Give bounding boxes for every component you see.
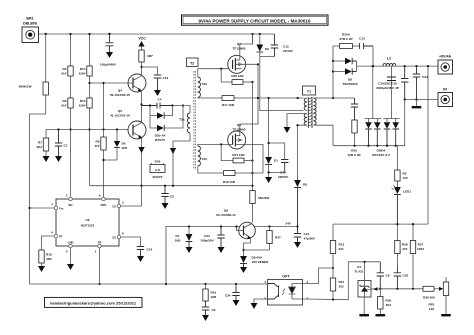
svg-text:100μf/400V: 100μf/400V — [100, 63, 117, 67]
svg-text:102: 102 — [403, 176, 408, 180]
wire T2C top to Q1 gate — [198, 144, 233, 146]
wire mid column R30 to bus — [252, 34, 254, 191]
svg-text:D8: D8 — [303, 183, 307, 187]
svg-text:2K2: 2K2 — [386, 303, 392, 307]
wire secondary bottom — [315, 125, 333, 146]
svg-text:8: 8 — [122, 232, 124, 236]
diode D5a — [365, 65, 381, 147]
wire pin1 line from sense — [412, 100, 414, 102]
svg-text:C34: C34 — [225, 294, 231, 298]
wire CS to bus — [121, 186, 142, 206]
wire bus tap to 680K — [45, 33, 47, 35]
resistor R12 102 — [330, 278, 344, 300]
part D29 BAV70 floating — [150, 160, 165, 180]
resistor R27 1002 — [410, 224, 424, 289]
svg-text:4: 4 — [51, 231, 53, 235]
svg-text:C19: C19 — [163, 76, 169, 80]
svg-text:C24: C24 — [147, 248, 153, 252]
svg-text:1204: 1204 — [79, 104, 86, 108]
wire opto pin3 ground — [254, 299, 268, 303]
ground TL431 — [359, 314, 369, 316]
svg-text:VCC: VCC — [138, 37, 146, 41]
svg-text:3: 3 — [122, 201, 124, 205]
svg-text:AL-BCX53-16: AL-BCX53-16 — [110, 114, 130, 118]
svg-text:R16: R16 — [211, 291, 217, 295]
wire opto pin2 right — [304, 262, 380, 300]
resistor R21 1R2 — [232, 153, 253, 163]
ground D7 — [186, 247, 193, 253]
svg-text:GND: GND — [68, 241, 74, 245]
svg-text:BL-BC856-16: BL-BC856-16 — [216, 213, 236, 217]
svg-text:24V: 24V — [285, 222, 291, 226]
capacitor C23 — [200, 225, 224, 247]
email box — [45, 297, 143, 307]
svg-text:C34: C34 — [422, 75, 428, 79]
svg-text:R7: R7 — [38, 141, 42, 145]
wire 0V rail — [405, 99, 438, 101]
svg-text:C16/18/17/19: C16/18/17/19 — [378, 82, 397, 86]
svg-text:C13: C13 — [359, 37, 365, 41]
svg-text:C21: C21 — [304, 232, 310, 236]
svg-text:Q1: Q1 — [237, 123, 241, 127]
svg-text:5: 5 — [66, 250, 68, 254]
wire TL431 anode ground — [363, 298, 365, 314]
ground C2 — [55, 156, 62, 162]
pin 3 CS — [112, 201, 124, 209]
wire C4 row to T2a top — [173, 106, 191, 114]
ground C23 — [218, 247, 225, 253]
svg-text:R39: R39 — [386, 299, 392, 303]
wire 680K bottom to left rail — [30, 95, 46, 284]
wire Q8 emitter to D9 — [244, 238, 251, 256]
wire VCC node to C19 — [142, 67, 158, 75]
svg-text:7: 7 — [51, 203, 53, 207]
svg-text:R20A: R20A — [342, 33, 351, 37]
svg-text:1N5: 1N5 — [122, 146, 128, 150]
resistor R6 102 — [395, 146, 408, 187]
svg-text:R17 10R: R17 10R — [222, 103, 235, 107]
part U4 TL431 — [355, 261, 371, 298]
wire column B R14 R15 — [89, 34, 91, 186]
svg-text:C6: C6 — [212, 308, 216, 312]
wire gate to R30 row — [221, 69, 232, 82]
svg-text:+9V/4A: +9V/4A — [439, 55, 451, 59]
svg-text:BAV70: BAV70 — [155, 138, 165, 142]
svg-text:nandasirigunasekare@yahoo.com: nandasirigunasekare@yahoo.com 25/12/2021 — [50, 301, 137, 306]
resistor R20A 47R X 2P — [333, 33, 360, 49]
resistor R38 472 — [395, 224, 408, 266]
wire SS to C24 — [121, 237, 141, 247]
svg-text:221: 221 — [339, 247, 344, 251]
svg-text:SS: SS — [112, 236, 116, 240]
capacitor C12 — [271, 34, 294, 57]
resistor R17 10R — [222, 96, 235, 107]
pin 1 FB — [95, 241, 102, 254]
svg-text:R30 1R2: R30 1R2 — [231, 74, 243, 78]
capacitor C4 — [142, 98, 174, 109]
winding T2b — [198, 77, 207, 98]
transformer T1 core — [308, 97, 312, 128]
svg-text:R14: R14 — [80, 67, 86, 71]
inductor L2 — [383, 57, 396, 67]
svg-text:16V ZENER: 16V ZENER — [252, 260, 270, 264]
svg-text:Q8: Q8 — [224, 209, 228, 213]
diode D2b-A4 lower — [150, 104, 184, 142]
capacitor C16-C19 bank — [376, 77, 399, 90]
svg-text:NCP1252: NCP1252 — [81, 224, 95, 228]
svg-text:C5: C5 — [170, 195, 174, 199]
svg-text:R26: R26 — [351, 149, 357, 153]
svg-text:4R2: 4R2 — [46, 257, 52, 261]
resistor R14 1204 — [79, 66, 93, 76]
ground R18 — [38, 266, 45, 272]
ground C19 — [154, 90, 161, 96]
wire Fss to left rail — [30, 207, 55, 209]
svg-text:47R X 2P: 47R X 2P — [339, 37, 352, 41]
resistor R15 1204 — [79, 98, 93, 108]
wire rectifier merge to rail — [357, 61, 374, 72]
node column A base row Q5 — [69, 128, 71, 130]
jack +9V/4A — [438, 55, 453, 75]
pin 2 BO — [66, 194, 73, 208]
resistor damper 12R — [347, 120, 360, 157]
svg-text:BR1: BR1 — [26, 17, 33, 21]
wire Q8 base stub — [237, 227, 239, 231]
transistor Q8 — [239, 222, 256, 239]
svg-text:L2: L2 — [387, 57, 391, 61]
resistor R16 10R — [203, 283, 217, 301]
wire snubber right to rail — [372, 46, 374, 66]
pin 7 Fss — [51, 203, 64, 211]
svg-text:LED1: LED1 — [403, 190, 411, 194]
wire bottom bus — [30, 283, 269, 285]
svg-text:R37: R37 — [275, 236, 281, 240]
diode D8 aux — [294, 180, 307, 226]
transformer T1 label — [303, 86, 316, 95]
svg-text:22P/6V: 22P/6V — [278, 175, 289, 179]
wire DRV column top — [103, 83, 105, 130]
wire T2a bottom return — [170, 133, 190, 186]
svg-text:DRV: DRV — [101, 203, 107, 207]
IC U6 NCP1252 — [56, 199, 119, 246]
capacitor C14 rect column — [401, 65, 408, 101]
svg-text:DBLB08: DBLB08 — [23, 22, 37, 26]
svg-text:R38: R38 — [402, 243, 408, 247]
svg-text:2: 2 — [307, 297, 309, 301]
svg-text:SX34/4A X 2: SX34/4A X 2 — [372, 153, 390, 157]
pin 6 DRV — [99, 194, 107, 208]
wire TL431 ref to R39 node — [371, 288, 380, 290]
winding T2C — [198, 146, 208, 166]
resistor R13 221 — [330, 224, 344, 278]
svg-text:C20: C20 — [403, 274, 409, 278]
svg-text:T2: T2 — [190, 61, 194, 65]
wire D1 C10 column — [269, 98, 285, 160]
svg-text:TSOP2000: TSOP2000 — [342, 82, 358, 86]
svg-text:T2C: T2C — [202, 157, 209, 161]
svg-text:6R1/2W: 6R1/2W — [258, 196, 269, 200]
VCC symbol — [138, 37, 146, 51]
svg-text:472: 472 — [402, 247, 407, 251]
node Q4 emitter / Q5 collector — [140, 103, 142, 105]
wire output rail — [373, 65, 438, 67]
svg-text:9V/4A POWER SUPPLY CIRCUIT MOD: 9V/4A POWER SUPPLY CIRCUIT MODEL - MA300… — [198, 18, 311, 23]
svg-text:1002: 1002 — [417, 247, 424, 251]
winding T1 secondary — [314, 98, 317, 125]
pin 8 SS — [112, 232, 124, 240]
ground C21 — [294, 242, 301, 248]
svg-text:D5/D4: D5/D4 — [377, 149, 386, 153]
capacitor 100uf/400V — [100, 33, 117, 67]
resistor R36 500 — [423, 286, 443, 299]
svg-text:U4: U4 — [357, 265, 361, 269]
wire GND pin down — [70, 248, 72, 264]
svg-text:1N5: 1N5 — [175, 239, 181, 243]
wire sense line y224 — [333, 223, 428, 225]
ground R7 — [43, 156, 50, 162]
wire R9 D6 join to DRV pin — [104, 160, 118, 199]
diode D2b-A4 upper — [149, 104, 173, 118]
diode D1 — [265, 157, 278, 165]
svg-text:680K/1W: 680K/1W — [19, 85, 32, 89]
svg-text:RT: RT — [59, 235, 63, 239]
capacitor C5 — [161, 186, 174, 203]
svg-text:102: 102 — [339, 285, 344, 289]
svg-text:10R: 10R — [211, 295, 217, 299]
resistor R18 4R2 — [39, 250, 52, 266]
svg-text:C23: C23 — [204, 234, 210, 238]
resistor R39 2K2 — [378, 289, 392, 314]
capacitor C13 — [359, 37, 373, 50]
transformer T2 core — [193, 71, 195, 170]
svg-text:3300μ6V/3 X 4P: 3300μ6V/3 X 4P — [376, 86, 399, 90]
pin 5 GND — [66, 241, 74, 254]
led LED1 — [392, 185, 412, 224]
title block — [182, 15, 329, 25]
wire RT to R18 — [42, 236, 55, 250]
capacitor damper — [351, 98, 358, 120]
svg-text:Q5: Q5 — [118, 109, 122, 113]
diode D4a — [372, 66, 400, 157]
transistor Q2 mosfet — [228, 55, 246, 73]
svg-text:T2b: T2b — [202, 82, 208, 86]
resistor R37 — [244, 225, 281, 250]
svg-text:D6: D6 — [122, 142, 126, 146]
svg-text:R15: R15 — [80, 99, 86, 103]
svg-text:R13: R13 — [339, 243, 345, 247]
capacitor C2 — [55, 128, 68, 156]
svg-text:R18 10R: R18 10R — [223, 180, 236, 184]
svg-text:R18: R18 — [46, 253, 52, 257]
diode D8b rectifier — [333, 68, 358, 86]
svg-text:D29: D29 — [155, 160, 161, 164]
ground R16 C6 — [202, 315, 209, 321]
ground opto — [251, 303, 258, 309]
svg-text:TF12N65: TF12N65 — [233, 47, 246, 51]
svg-text:BL-BCX56-16: BL-BCX56-16 — [110, 93, 130, 97]
svg-text:BO: BO — [68, 203, 72, 207]
svg-text:R27: R27 — [418, 243, 424, 247]
svg-text:R21 1R2: R21 1R2 — [232, 153, 244, 157]
svg-text:100: 100 — [429, 307, 434, 311]
wire +9V to sense line — [427, 66, 429, 224]
node 680K rail to Fss — [28, 207, 30, 209]
resistor R7 1K2 — [36, 130, 48, 157]
capacitor C19 — [154, 75, 169, 90]
diode D6 snubber — [256, 33, 269, 52]
wire R17 row primary top — [198, 97, 304, 100]
winding T1 aux — [304, 114, 307, 126]
svg-text:D9-6VA: D9-6VA — [252, 256, 264, 260]
svg-text:A·K: A·K — [155, 168, 161, 172]
resistor R2 614 — [61, 66, 73, 76]
svg-text:T2a: T2a — [179, 118, 185, 122]
svg-text:C10: C10 — [280, 170, 286, 174]
svg-text:D8: D8 — [348, 78, 352, 82]
svg-text:C12: C12 — [283, 45, 289, 49]
svg-text:Q4: Q4 — [118, 89, 122, 93]
wire top bus — [39, 33, 275, 35]
wire Q4 base row — [90, 82, 129, 84]
ground R39 — [376, 314, 386, 316]
transistor Q1 mosfet — [228, 131, 246, 149]
svg-text:2: 2 — [66, 194, 68, 198]
node base tap Q4 — [88, 82, 90, 84]
svg-text:C8: C8 — [386, 274, 390, 278]
capacitor C8 — [377, 262, 390, 290]
svg-text:614: 614 — [61, 104, 66, 108]
wire ref bus — [380, 288, 423, 290]
svg-text:614: 614 — [61, 72, 66, 76]
diode D8a rectifier — [333, 58, 357, 64]
pin 4 RT — [51, 231, 63, 239]
svg-text:TL431: TL431 — [355, 270, 364, 274]
wire Q2 drain to top rail — [240, 34, 253, 55]
svg-text:D1: D1 — [274, 159, 278, 163]
wire aux bottom to 24V column — [298, 125, 307, 180]
svg-text:6: 6 — [99, 194, 101, 198]
wire VCC bus — [90, 185, 253, 187]
potentiometer RP1 100 — [428, 277, 448, 314]
winding T1 primary — [304, 98, 307, 111]
ground D9 — [240, 267, 247, 273]
ground 0V — [416, 100, 418, 107]
svg-text:1K2: 1K2 — [36, 145, 42, 149]
wire rectifier return column — [333, 100, 405, 146]
svg-text:T1: T1 — [307, 90, 311, 94]
wire Q5 base row — [46, 129, 133, 131]
svg-text:3: 3 — [264, 297, 266, 301]
capacitor C24 — [137, 247, 153, 257]
resistor 6R1/2W — [250, 191, 269, 223]
wire 24V rail box — [166, 227, 298, 285]
svg-text:100μ/50V: 100μ/50V — [200, 239, 214, 243]
svg-text:1: 1 — [95, 250, 97, 254]
svg-text:4R7: 4R7 — [147, 54, 153, 58]
svg-text:RP1: RP1 — [428, 303, 434, 307]
capacitor C6 — [202, 301, 216, 315]
svg-text:FB: FB — [98, 241, 102, 245]
wire column A R2 R3 — [70, 34, 72, 199]
wire Q1 source to R18 row — [242, 144, 264, 173]
capacitor C21 — [294, 227, 316, 243]
resistor R9 470 — [94, 128, 106, 160]
transistor Q5 — [128, 105, 146, 140]
resistor 680K/1W — [19, 82, 49, 95]
wire T2C bottom to R18 row — [198, 166, 263, 173]
svg-text:OPT: OPT — [282, 275, 290, 279]
svg-text:R12: R12 — [339, 280, 345, 284]
wire opto pin1 up — [304, 268, 333, 284]
ground U6 — [67, 264, 74, 270]
zener D9 — [240, 256, 269, 268]
resistor R30 1R2 — [231, 74, 253, 84]
svg-text:R9: R9 — [96, 140, 100, 144]
svg-text:C2: C2 — [64, 144, 68, 148]
capacitor C34 output — [413, 65, 428, 100]
svg-text:47μ/50V: 47μ/50V — [304, 237, 317, 241]
wire FB pin to bottom bus — [99, 248, 101, 284]
svg-text:C4: C4 — [158, 98, 162, 102]
ground C5 — [162, 203, 169, 209]
resistor R3 614 — [61, 98, 73, 108]
wire Q2 source to mid column — [240, 64, 258, 131]
ground C24 — [137, 256, 144, 262]
wire secondary top row — [315, 97, 355, 99]
optocoupler OPT — [264, 275, 308, 306]
svg-text:R3: R3 — [63, 99, 67, 103]
svg-text:Fss: Fss — [59, 207, 64, 211]
svg-text:470: 470 — [94, 144, 99, 148]
resistor 4R7 — [139, 50, 153, 75]
resistor R18 10R — [223, 171, 236, 184]
ground C34 — [233, 300, 240, 306]
capacitor C34 — [225, 283, 240, 300]
svg-text:4: 4 — [264, 280, 266, 284]
wire aux top to ground — [287, 114, 307, 127]
svg-text:R36 500: R36 500 — [423, 296, 435, 300]
ground RP1 — [441, 314, 451, 316]
wire D1 C10 bottom join — [269, 165, 285, 178]
svg-text:D7: D7 — [176, 234, 180, 238]
ground D1 C10 — [265, 177, 272, 183]
wire T2b top to Q2 gate — [198, 69, 233, 77]
wire Q5 emitter down to bus with arrow — [138, 138, 144, 186]
wire gate to R21 row — [221, 144, 233, 160]
svg-text:BAV70: BAV70 — [153, 175, 163, 179]
diode D7 — [175, 225, 193, 247]
jack 9V — [438, 88, 453, 107]
svg-text:CS: CS — [112, 205, 116, 209]
svg-text:22/16V: 22/16V — [283, 49, 294, 53]
svg-text:R6: R6 — [403, 172, 407, 176]
transformer T2 label — [187, 58, 199, 67]
capacitor C10 — [281, 160, 288, 173]
svg-text:9V: 9V — [443, 88, 448, 92]
svg-text:12R X 3P: 12R X 3P — [347, 153, 360, 157]
svg-text:R2: R2 — [63, 67, 67, 71]
connector BR1 DBLB08 — [22, 17, 39, 43]
svg-text:D6: D6 — [265, 47, 269, 51]
svg-text:1204: 1204 — [79, 72, 86, 76]
svg-text:U6: U6 — [86, 218, 90, 222]
ground aux — [284, 127, 291, 133]
winding T2a — [179, 113, 190, 133]
transistor Q4 — [128, 74, 146, 105]
diode D6 small — [114, 128, 128, 160]
capacitor C20 — [394, 267, 409, 289]
wire secondary left rail — [332, 46, 334, 98]
